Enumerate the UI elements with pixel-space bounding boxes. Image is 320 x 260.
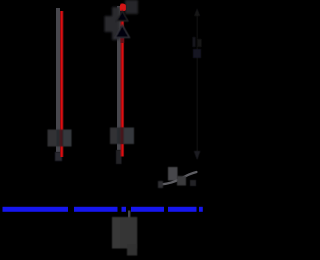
swoosh / pointer curve <box>161 172 197 185</box>
label glyph right of line top <box>125 0 138 14</box>
dimension line lambda/4 (right, faint) <box>194 8 201 160</box>
ground plane (blue dashed line) <box>3 207 203 212</box>
current line I2 (red, on element 2) <box>120 4 126 157</box>
feed line from ground to transmitter <box>128 211 130 219</box>
antenna element 1 (left mast, gray) <box>55 8 62 161</box>
current direction arrowhead (lower, black w/ gray halo) <box>115 25 129 38</box>
loading coil box L2 <box>110 128 134 145</box>
current direction arrowhead (upper, black w/ gray halo) <box>117 11 129 21</box>
label glyphs left of arrow (faint cross shape) <box>105 7 120 40</box>
loading coil box L1 <box>48 130 72 147</box>
small marks under swoosh <box>158 176 196 188</box>
antenna element 2 (right mast, gray) <box>116 6 122 164</box>
transmitter box TX <box>112 217 137 256</box>
dimension label (faint glyphs) <box>193 37 202 58</box>
label block (mid-right, gray glyph) <box>168 167 178 181</box>
current line I1 (red, on element 1) <box>60 11 63 157</box>
